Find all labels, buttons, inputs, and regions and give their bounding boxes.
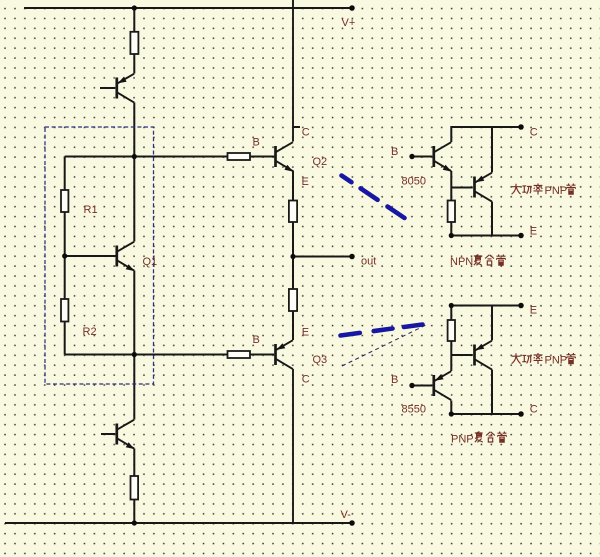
resistor bottom-left bias (131, 476, 139, 500)
wire V+ top rail (24, 7, 352, 9)
svg-text:R2: R2 (83, 326, 97, 338)
terminal B 8550 (409, 383, 414, 388)
svg-text:B: B (253, 334, 260, 346)
selection dashed box around Vbe multiplier (45, 127, 154, 384)
svg-text:R1: R1 (84, 204, 98, 216)
annotation thin dashed line (342, 325, 427, 367)
svg-text:E: E (530, 225, 537, 237)
wire central vertical upper (top edge to node C of Q2) (292, 0, 294, 142)
wire E rail of NPN pair (451, 235, 521, 237)
wire Q1 base lead (65, 255, 116, 257)
wire bottom node down to lower NPN collector (133, 355, 135, 420)
junction NPN-pair E left (449, 233, 454, 238)
terminal E NPN-pair (518, 233, 524, 239)
svg-text:PNP: PNP (451, 434, 474, 446)
wire bottom resistor to V- rail (133, 500, 135, 524)
wire big PNP1 collector down to E rail (491, 202, 493, 236)
resistor Q2 base (228, 153, 251, 160)
terminal out (349, 254, 355, 260)
resistor Q2 emitter (289, 201, 297, 223)
svg-text:C: C (530, 403, 538, 415)
svg-text:NPN: NPN (450, 256, 473, 268)
terminal C PNP-pair (518, 411, 524, 417)
wire big PNP2 emitter up to E rail (491, 306, 493, 341)
terminal V- (349, 520, 355, 526)
wire 8050 emitter to PNP base node (450, 171, 452, 201)
junction PNP-pair E left (449, 303, 454, 308)
wire 8050 collector to C rail (451, 127, 521, 142)
wire 8050 base lead (412, 156, 432, 158)
svg-text:E: E (302, 326, 309, 338)
terminal C NPN-pair (518, 124, 524, 130)
wire 8550 collector to C rail lower (450, 401, 452, 415)
wire R1 to Q1 base node (64, 212, 66, 299)
wire E rail of PNP pair (451, 305, 521, 307)
wire lower resistor to Q3 emitter (292, 311, 294, 340)
wire top resistor to upper PNP emitter (133, 54, 135, 74)
svg-text:E: E (302, 176, 309, 188)
resistor Q3 base (228, 351, 251, 358)
wire V- bottom rail (5, 522, 352, 524)
wire Q3 base resistor to Q3 (250, 354, 274, 356)
wire R2 to bottom node (64, 322, 66, 355)
svg-text:PNP: PNP (545, 185, 568, 197)
transistor big PNP upper (475, 173, 492, 202)
wire resistor to 8550 emitter node (450, 341, 452, 371)
svg-text:Q1: Q1 (143, 256, 158, 268)
wire node A to Q2 base resistor (134, 156, 227, 158)
transistor Q3 (276, 340, 293, 369)
junction Q1 base (62, 253, 67, 258)
svg-text:C: C (530, 126, 538, 138)
svg-text:8550: 8550 (402, 404, 426, 416)
wire out tap (293, 256, 352, 258)
wire bottom node horizontal (65, 354, 228, 356)
wire upper PNP base stub (100, 87, 115, 89)
svg-text:out: out (361, 256, 376, 268)
wire node A horizontal left (65, 156, 135, 158)
svg-text:V-: V- (341, 509, 352, 521)
junction V+ left branch (132, 5, 137, 10)
svg-text:C: C (302, 373, 310, 385)
svg-text:C: C (302, 127, 310, 139)
transistor upper-left PNP (117, 74, 134, 103)
wire resistor to E rail upper (450, 222, 452, 236)
wire big PNP2 collector down to C rail (491, 370, 493, 415)
wire Q1 collector up to node A (133, 157, 135, 242)
svg-text:8050: 8050 (402, 176, 426, 188)
junction node A (132, 154, 137, 159)
wire C rail of PNP pair (451, 413, 521, 415)
resistor NPN-pair bias (448, 201, 455, 223)
transistor Q1 (117, 242, 135, 271)
svg-text:Q2: Q2 (313, 156, 328, 168)
wire Q2 emitter to resistor (292, 171, 294, 201)
transistor big PNP lower (475, 341, 492, 370)
wire left column top (64, 157, 66, 191)
terminal V+ (349, 5, 355, 11)
label 大功率PNP管 (lower) (512, 353, 543, 364)
transistor 8050 (434, 142, 452, 171)
svg-text:E: E (530, 304, 537, 316)
transistor lower-left NPN (117, 420, 135, 449)
junction V- left branch (132, 520, 137, 525)
resistor PNP-pair bias (448, 320, 455, 341)
wire V+ to top resistor (133, 8, 135, 32)
transistor 8550 (434, 371, 451, 400)
resistor R2 (61, 299, 68, 322)
terminal E PNP-pair (518, 303, 524, 309)
wire Q3 collector down to V- rail (292, 369, 294, 523)
wire Q1 emitter down to bottom node (133, 271, 135, 355)
wire PNP base tap upper (451, 187, 473, 189)
resistor top-left bias (130, 32, 138, 54)
junction bottom node (132, 352, 137, 357)
resistor R1 (61, 190, 68, 212)
svg-text:PNP: PNP (545, 355, 568, 367)
wire E rail to resistor lower (450, 306, 452, 321)
annotation arrow upper (thick blue dashed) (342, 176, 405, 219)
terminal B 8050 (409, 154, 414, 159)
wire lower NPN emitter to bottom resistor (133, 449, 135, 477)
svg-text:B: B (391, 374, 398, 386)
wire lower NPN base stub (101, 433, 115, 435)
label 大功率PNP管 (upper) (512, 184, 543, 195)
wire upper PNP collector to node A (133, 103, 135, 157)
transistor Q2 (276, 142, 294, 171)
wire 8550 base lead (412, 385, 432, 387)
junction out (290, 254, 295, 259)
wire resistor to out node (292, 222, 294, 289)
svg-text:V+: V+ (342, 17, 356, 29)
resistor Q3 emitter (289, 289, 297, 311)
wire big PNP2 base tap (451, 354, 473, 356)
svg-text:B: B (253, 136, 260, 148)
annotation arrow lower (thick blue dashed) (341, 325, 423, 336)
wire stub node C (293, 126, 300, 128)
wire Q2 base resistor to Q2 (250, 156, 274, 158)
junction PNP-pair C left (449, 411, 454, 416)
svg-text:B: B (391, 146, 398, 158)
wire big PNP1 emitter up to C rail (491, 127, 493, 173)
svg-text:Q3: Q3 (313, 354, 328, 366)
